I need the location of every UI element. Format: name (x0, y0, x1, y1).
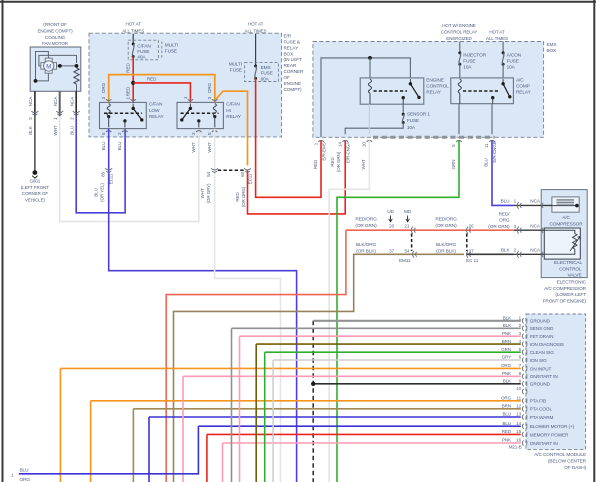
wire RED: fuse to junction and LOW relay pin1 (132, 57, 134, 103)
svg-text:ON/START IN: ON/START IN (530, 374, 558, 379)
svg-text:RED: RED (313, 159, 318, 169)
svg-text:PTA F/B: PTA F/B (530, 399, 546, 404)
svg-text:PNK: PNK (502, 438, 511, 443)
svg-text:LOW: LOW (149, 108, 160, 114)
svg-text:REAR: REAR (284, 63, 297, 69)
ground G601 (33, 170, 38, 175)
wire to module pin 12 (133, 408, 520, 410)
svg-text:10A: 10A (463, 65, 472, 71)
C/FAN LOW relay box (100, 102, 147, 128)
svg-text:MD: MD (404, 209, 412, 215)
svg-text:RED: RED (125, 86, 130, 96)
wire to module pin 5 (265, 351, 521, 353)
junction dots in motor box (58, 64, 62, 68)
svg-text:CONTROL: CONTROL (426, 84, 449, 90)
wire row3 vertical (239, 336, 241, 482)
svg-text:VEHICLE): VEHICLE) (25, 198, 46, 203)
svg-text:(LOWER LEFT: (LOWER LEFT (555, 292, 586, 298)
svg-text:COMP: COMP (516, 84, 530, 90)
svg-text:C/FAN: C/FAN (226, 102, 240, 108)
svg-text:BLOWER MOTOR (+): BLOWER MOTOR (+) (530, 424, 575, 429)
wire BLU: EMS pin11 to compressor (492, 140, 514, 205)
EMS internal feed wire (321, 58, 410, 137)
svg-text:ENGINE: ENGINE (426, 77, 444, 83)
wire WHT (OR GRY): HI pin5 down through break 54 (215, 129, 281, 482)
svg-text:C/FAN: C/FAN (137, 43, 151, 49)
svg-text:BRN: BRN (502, 339, 511, 344)
svg-text:BLK: BLK (28, 125, 33, 134)
svg-text:BLK: BLK (503, 379, 511, 384)
svg-text:(OR GRN): (OR GRN) (336, 151, 341, 172)
A/C control module box (dashed) (526, 314, 586, 449)
svg-text:A/C: A/C (516, 77, 524, 83)
svg-text:(BELOW CENTER: (BELOW CENTER (548, 459, 587, 465)
svg-text:ALL TIMES: ALL TIMES (245, 28, 267, 33)
svg-text:BLU: BLU (20, 468, 30, 474)
svg-text:A/C CONTROL MODULE: A/C CONTROL MODULE (534, 452, 586, 458)
outer frame border (2, 0, 4, 482)
A/C relay switch (502, 79, 504, 83)
wire to module pin 14 (198, 425, 520, 427)
svg-text:10A: 10A (507, 65, 516, 71)
engine relay switch (409, 79, 411, 83)
svg-text:RED: RED (147, 77, 157, 82)
EMS box pin cups (318, 140, 323, 141)
ECV box (544, 228, 580, 259)
svg-text:BLU: BLU (94, 188, 99, 197)
wire GRN: EMS pin5 long run (337, 140, 459, 482)
svg-text:RED: RED (330, 157, 335, 167)
svg-text:M21-B: M21-B (509, 444, 522, 449)
svg-text:63: 63 (240, 172, 245, 177)
svg-text:GRN: GRN (451, 160, 456, 170)
wire WHT: EMS pin10 long run (329, 140, 369, 482)
svg-text:ELECTRONIC: ELECTRONIC (557, 280, 587, 286)
wire row11 vertical (90, 401, 92, 482)
svg-text:ENGINE COMPT): ENGINE COMPT) (37, 29, 73, 34)
svg-text:(OR BLK): (OR BLK) (356, 248, 376, 254)
svg-text:(LEFT FRONT: (LEFT FRONT (21, 185, 49, 190)
engine relay dashed bar (374, 90, 408, 92)
svg-text:E/R-EMS: E/R-EMS (321, 142, 326, 160)
svg-text:(IN LEFT: (IN LEFT (284, 57, 303, 63)
svg-text:EC11: EC11 (109, 173, 114, 184)
svg-text:(OR BLK): (OR BLK) (436, 248, 456, 254)
svg-text:ORG: ORG (101, 82, 106, 93)
svg-text:(OR GRY): (OR GRY) (206, 183, 211, 204)
svg-text:BLK: BLK (503, 323, 511, 328)
svg-text:MULTI: MULTI (165, 42, 178, 48)
wire ORG: LOW relay pin3 over to HI relay pin3 (109, 75, 215, 103)
svg-text:ON INPUT: ON INPUT (530, 366, 552, 371)
svg-text:ALL TIMES: ALL TIMES (486, 36, 508, 41)
svg-text:FUSE: FUSE (261, 71, 273, 77)
wire row8 vertical (182, 376, 184, 482)
compressor motor block (552, 197, 579, 212)
svg-text:HI: HI (226, 108, 231, 114)
svg-text:12: 12 (516, 404, 521, 409)
svg-text:ENGINE: ENGINE (284, 81, 302, 87)
svg-text:BLK/ORG: BLK/ORG (356, 242, 377, 248)
svg-text:26: 26 (469, 224, 474, 229)
svg-text:ORG: ORG (20, 477, 31, 482)
wire to module pin 3 (240, 335, 521, 337)
engine relay coil wire down to pin 10 (368, 104, 370, 134)
wire to module pin 8 (183, 375, 521, 377)
svg-text:CORNER: CORNER (284, 69, 305, 75)
svg-text:GRY: GRY (502, 355, 511, 360)
wire row4 vertical (255, 344, 257, 482)
svg-text:FUSE &: FUSE & (284, 39, 301, 45)
svg-text:(FRONT OF: (FRONT OF (43, 22, 67, 27)
svg-text:RED/: RED/ (499, 211, 511, 217)
svg-text:ALL TIMES: ALL TIMES (122, 28, 144, 33)
svg-text:ENERGIZED: ENERGIZED (446, 36, 472, 41)
ground bus junction dot (311, 382, 315, 386)
injector fuse 10A (458, 51, 461, 54)
wire row16 vertical (222, 443, 224, 482)
wire RED (OR ORG): break 63 to EMS pin14 (248, 140, 346, 214)
svg-text:GROUND: GROUND (530, 319, 551, 324)
svg-text:ION SIG: ION SIG (530, 358, 547, 363)
wire row14 vertical + bottom BLU feed (19, 426, 199, 474)
svg-text:RELAY: RELAY (516, 90, 532, 96)
LOW relay switch (132, 104, 134, 108)
LOW relay dashed bar (104, 112, 142, 114)
svg-text:NCA: NCA (530, 223, 541, 229)
svg-text:20: 20 (389, 224, 394, 229)
wire to module pin 7 (60, 367, 520, 369)
svg-text:27: 27 (469, 248, 474, 253)
svg-text:ORG: ORG (501, 363, 512, 368)
wire RED: EMS fuse to EMS box pin 1 (256, 78, 321, 197)
svg-text:60A: 60A (261, 76, 270, 82)
svg-text:15: 15 (516, 429, 521, 434)
HI relay coil (213, 104, 216, 116)
svg-text:(OR ORG): (OR ORG) (241, 186, 246, 207)
svg-text:BLK: BLK (501, 248, 511, 254)
svg-text:UD: UD (387, 209, 394, 215)
BLK wire after EC11 to compressor (467, 253, 514, 255)
engine relay coil (368, 79, 371, 93)
svg-text:FUSE: FUSE (507, 59, 519, 65)
svg-text:WHT: WHT (53, 125, 58, 135)
svg-text:HOT W/ ENGINE: HOT W/ ENGINE (442, 23, 476, 28)
svg-text:21: 21 (404, 224, 409, 229)
svg-text:FUSE: FUSE (137, 49, 149, 55)
E/R fuse & relay box (dashed) (89, 33, 282, 137)
C/FAN HI relay box (177, 102, 223, 128)
svg-text:FUSE: FUSE (407, 118, 419, 124)
svg-text:11: 11 (484, 143, 489, 148)
wire to module pin 9 (313, 383, 521, 385)
EMS box (dashed) (313, 42, 544, 138)
svg-text:10: 10 (516, 386, 521, 391)
svg-text:COMPT): COMPT) (284, 87, 303, 93)
svg-text:ORG: ORG (207, 82, 212, 93)
svg-text:E/R: E/R (284, 34, 292, 40)
svg-text:GRN: GRN (501, 347, 511, 352)
svg-text:(OR GRN): (OR GRN) (488, 224, 510, 230)
EC11 dashed link (218, 169, 245, 171)
svg-text:FUSE: FUSE (230, 68, 242, 74)
svg-text:RELAY: RELAY (426, 90, 442, 96)
svg-text:RED/ORG: RED/ORG (435, 217, 457, 223)
svg-text:G601: G601 (30, 179, 41, 184)
svg-text:54: 54 (404, 248, 409, 253)
svg-text:54: 54 (206, 172, 211, 177)
sensor 1 fuse 10A (402, 104, 404, 114)
wire row6 vertical (272, 360, 274, 482)
wire BLU (OR YEL): LOW pin5 down to EC11 break and long run (109, 129, 297, 482)
compressor pin rows: BLU 1 NCA (514, 204, 552, 206)
A/C comp relay box (451, 78, 514, 104)
wire to module pin 16 (223, 442, 521, 444)
svg-text:C/FAN: C/FAN (149, 102, 163, 108)
C/FAN fuse 40A (multi fuse box) (128, 40, 158, 60)
svg-text:65: 65 (100, 172, 105, 177)
svg-text:HOT AT: HOT AT (248, 21, 264, 26)
engine control relay box (360, 78, 424, 104)
svg-text:HOT AT: HOT AT (126, 21, 142, 26)
wire to module pin 1 (313, 320, 521, 322)
wire injector fuse feed (459, 42, 461, 53)
svg-text:MEMORY POWER: MEMORY POWER (530, 432, 569, 437)
svg-text:A/C: A/C (562, 215, 570, 221)
svg-text:10: 10 (362, 142, 367, 147)
svg-text:NCA: NCA (70, 96, 75, 106)
svg-text:CORNER OF: CORNER OF (22, 191, 49, 196)
a/con fuse 10A (502, 51, 505, 54)
svg-text:FUSE: FUSE (463, 59, 475, 65)
svg-text:FAN MOTOR: FAN MOTOR (42, 41, 69, 46)
EM11/EC11 dashed links (411, 234, 413, 252)
wire to module pin 13 (149, 416, 521, 418)
svg-text:ION DIAGNOSIS: ION DIAGNOSIS (530, 342, 564, 347)
svg-text:EC 11: EC 11 (466, 258, 479, 264)
svg-text:RELAY: RELAY (149, 114, 165, 120)
svg-text:OF: OF (284, 75, 291, 81)
svg-text:14: 14 (516, 421, 521, 426)
wire row7 vertical (59, 368, 61, 482)
svg-text:FET DRAIN: FET DRAIN (530, 334, 554, 339)
svg-text:COMPRESSOR: COMPRESSOR (549, 221, 583, 227)
LOW relay coil (107, 104, 110, 116)
wire BLK to ground (34, 116, 36, 171)
svg-text:RELAY: RELAY (284, 45, 300, 51)
wire to module pin 6 (273, 359, 521, 361)
svg-text:FUSE: FUSE (165, 48, 177, 54)
motor resistor (74, 68, 79, 84)
svg-text:EM11: EM11 (399, 258, 411, 264)
wire row15 vertical (206, 434, 208, 482)
LOW relay pin cups (106, 99, 111, 100)
ground dashed bus (pins 1 and 9) (312, 321, 314, 482)
svg-text:ORG: ORG (499, 218, 510, 224)
ECV internal wiring + variable resistor (544, 230, 575, 233)
A/C compressor outer box (541, 190, 587, 278)
svg-text:OF DASH): OF DASH) (564, 465, 586, 471)
svg-text:RED/ORG: RED/ORG (355, 217, 377, 223)
wire row2 vertical (231, 328, 233, 482)
wire to module pin 15 (207, 433, 521, 435)
svg-text:14: 14 (337, 142, 342, 147)
svg-text:FRONT OF ENGINE): FRONT OF ENGINE) (543, 298, 587, 304)
svg-text:WHT: WHT (191, 142, 196, 152)
svg-text:A/CON: A/CON (507, 53, 522, 59)
svg-text:BLU: BLU (501, 199, 511, 205)
wire motor pin1 WHT upper (59, 91, 61, 116)
svg-text:13: 13 (516, 412, 521, 417)
compressor pin row: BLK 2 NCA (514, 253, 545, 255)
svg-text:M: M (46, 64, 51, 70)
svg-text:NCA: NCA (28, 96, 33, 106)
HI relay switch (189, 104, 191, 108)
A/C relay dashed bar (463, 90, 500, 92)
svg-text:RED: RED (502, 429, 512, 434)
svg-text:BLU: BLU (117, 142, 122, 151)
svg-text:BLU: BLU (70, 126, 75, 135)
wire motor pin3 BLK upper (34, 91, 36, 116)
svg-text:BLU: BLU (503, 421, 512, 426)
svg-text:RELAY: RELAY (226, 114, 242, 120)
svg-text:PTA COOL: PTA COOL (530, 407, 553, 412)
svg-text:40A: 40A (137, 55, 146, 61)
svg-text:A/C COMPRESSOR: A/C COMPRESSOR (544, 286, 587, 292)
compressor pin row: RED/ORG 3 NCA (514, 229, 545, 231)
svg-text:GROUND: GROUND (530, 382, 551, 387)
svg-text:BLK/ORG: BLK/ORG (436, 242, 457, 248)
wire ORG: HI relay pin3 elbow to EC11 branch (215, 91, 248, 165)
wire feed to EMS fuse (255, 34, 257, 66)
wire BLU: motor pin2 to C/FAN LOW relay pin 2 (76, 116, 125, 213)
wire to module pin 2 (232, 327, 521, 329)
svg-text:BLU: BLU (503, 412, 512, 417)
svg-text:VALVE: VALVE (567, 273, 581, 279)
svg-text:BLU: BLU (101, 142, 106, 151)
svg-text:BOX: BOX (547, 48, 558, 54)
svg-text:WHT: WHT (361, 159, 366, 169)
multi fuse bracket label (161, 42, 163, 59)
svg-text:MULTI: MULTI (229, 62, 242, 68)
svg-text:PNK: PNK (502, 331, 511, 336)
svg-text:RED: RED (125, 63, 130, 73)
svg-text:WHT: WHT (200, 188, 205, 198)
svg-text:INJECTOR: INJECTOR (463, 53, 486, 59)
svg-text:EMS: EMS (261, 65, 271, 71)
thick dashed segment of EMS box bottom (373, 136, 495, 139)
wire battery feed to C/FAN fuse (132, 34, 134, 44)
A/C relay internal wires to EMS pins (458, 104, 460, 135)
svg-text:BLU: BLU (483, 158, 488, 167)
wire WHT: motor pin1 to C/FAN HI relay pin 2 (60, 116, 199, 221)
HI relay dashed bar (181, 112, 219, 114)
wire RED/ORG (OR GRN) row (166, 230, 346, 482)
svg-text:EMS: EMS (547, 42, 557, 48)
HI relay pin cups (188, 99, 193, 100)
motor internal loop wires (36, 52, 49, 81)
svg-text:ORG: ORG (501, 396, 512, 401)
svg-text:SENS GND: SENS GND (530, 326, 554, 331)
connector cups on motor wires (31, 111, 38, 113)
svg-text:COOLING: COOLING (45, 35, 66, 40)
svg-text:11: 11 (517, 396, 522, 401)
motor M1 symbol (41, 63, 45, 70)
svg-text:BOX: BOX (284, 51, 295, 57)
svg-text:E/R-CNGA: E/R-CNGA (345, 141, 350, 163)
svg-text:(OR GRN): (OR GRN) (355, 223, 377, 229)
wire to module pin 11 (91, 400, 521, 402)
wire row12 vertical (132, 409, 134, 482)
wire BLK/ORG (OR BLK) row (358, 253, 464, 255)
svg-text:BRN: BRN (502, 404, 511, 409)
svg-text:NCA: NCA (53, 96, 58, 106)
svg-text:WHT: WHT (207, 142, 212, 152)
EMS fuse 60A (245, 62, 279, 81)
wire row13 vertical (148, 417, 150, 482)
wire to module pin 4 (256, 343, 521, 345)
svg-text:(OR YEL): (OR YEL) (100, 183, 105, 202)
svg-text:CONTROL RELAY: CONTROL RELAY (441, 29, 477, 34)
svg-text:PNK: PNK (502, 371, 511, 376)
A/C relay coil (458, 79, 461, 93)
svg-text:CLEAN SIG: CLEAN SIG (530, 350, 554, 355)
svg-text:ON/START IN: ON/START IN (530, 441, 558, 446)
wire row5 vertical (264, 352, 266, 482)
svg-text:SENSOR 1: SENSOR 1 (407, 112, 431, 118)
svg-text:(OR GRN): (OR GRN) (435, 223, 457, 229)
svg-text:CONTROL: CONTROL (559, 266, 582, 272)
svg-text:16: 16 (516, 438, 521, 443)
svg-text:RED: RED (235, 192, 240, 202)
svg-text:NCA: NCA (530, 199, 541, 205)
cooling fan motor box (30, 47, 81, 91)
wire RED: junction to HI relay pin1 (133, 83, 190, 103)
svg-text:ELECTRICAL: ELECTRICAL (554, 260, 583, 266)
svg-text:E/R-CNGB: E/R-CNGB (492, 141, 497, 162)
wire a/con fuse feed (502, 42, 504, 53)
wire motor pin2 BLU upper (75, 91, 77, 116)
svg-text:37: 37 (389, 248, 394, 253)
svg-text:PTA WARM: PTA WARM (530, 415, 554, 420)
svg-text:HOT AT: HOT AT (489, 29, 505, 34)
svg-text:NCA: NCA (530, 248, 541, 254)
svg-text:10A: 10A (407, 125, 416, 131)
